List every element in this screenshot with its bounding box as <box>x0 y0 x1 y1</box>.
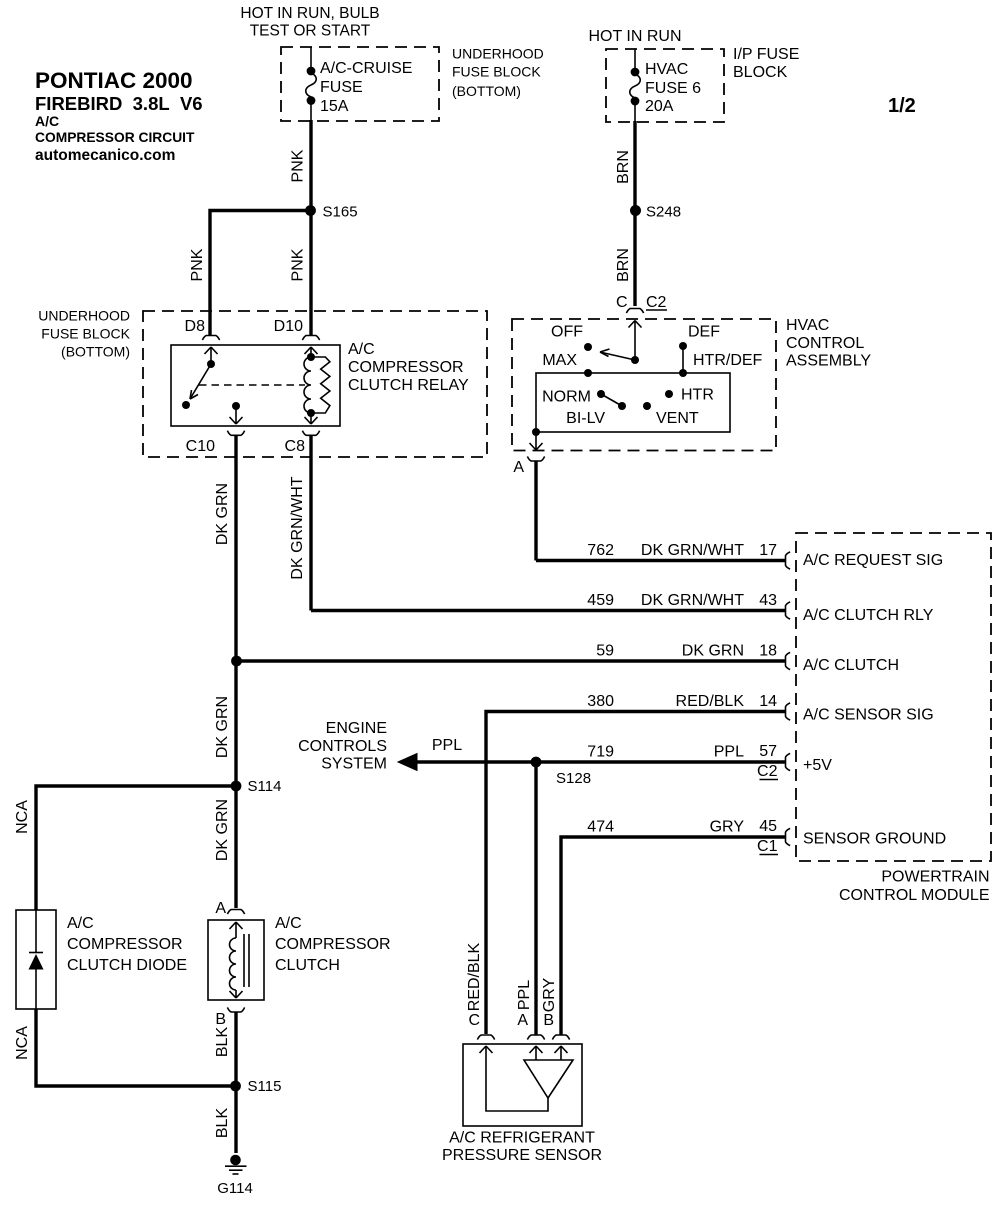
svg-text:ASSEMBLY: ASSEMBLY <box>786 353 871 370</box>
svg-text:CLUTCH DIODE: CLUTCH DIODE <box>67 957 187 974</box>
svg-text:459: 459 <box>587 592 614 609</box>
svg-text:A/C SENSOR SIG: A/C SENSOR SIG <box>803 707 934 724</box>
svg-text:FUSE 6: FUSE 6 <box>645 80 701 97</box>
svg-text:COMPRESSOR: COMPRESSOR <box>67 936 183 953</box>
svg-text:RED/BLK: RED/BLK <box>676 693 745 710</box>
svg-text:59: 59 <box>596 643 614 660</box>
svg-text:CLUTCH: CLUTCH <box>275 957 340 974</box>
svg-text:NCA: NCA <box>14 1026 31 1060</box>
svg-text:A/C: A/C <box>35 113 59 129</box>
svg-text:MAX: MAX <box>542 352 577 369</box>
svg-text:HOT IN RUN: HOT IN RUN <box>588 28 681 45</box>
svg-text:1/2: 1/2 <box>888 95 916 117</box>
svg-text:G114: G114 <box>217 1180 253 1197</box>
svg-text:DK GRN: DK GRN <box>682 643 744 660</box>
svg-text:GRY: GRY <box>541 977 558 1012</box>
svg-text:COMPRESSOR CIRCUIT: COMPRESSOR CIRCUIT <box>35 130 195 145</box>
svg-text:BLOCK: BLOCK <box>733 64 788 81</box>
svg-text:CONTROL MODULE: CONTROL MODULE <box>839 887 990 904</box>
svg-text:PPL: PPL <box>714 744 744 761</box>
svg-text:A/C: A/C <box>67 915 94 932</box>
svg-text:43: 43 <box>759 592 777 609</box>
svg-text:S248: S248 <box>646 204 681 221</box>
svg-text:RED/BLK: RED/BLK <box>466 942 483 1011</box>
svg-text:(BOTTOM): (BOTTOM) <box>61 344 130 360</box>
svg-text:BLK: BLK <box>214 1108 231 1139</box>
svg-text:PNK: PNK <box>290 149 307 182</box>
svg-text:B: B <box>543 1012 554 1029</box>
svg-text:A/C-CRUISE: A/C-CRUISE <box>320 60 412 77</box>
svg-text:A/C REQUEST SIG: A/C REQUEST SIG <box>803 552 943 569</box>
svg-text:PRESSURE SENSOR: PRESSURE SENSOR <box>442 1147 602 1164</box>
svg-text:B: B <box>215 1011 226 1028</box>
svg-text:DEF: DEF <box>688 324 720 341</box>
svg-text:380: 380 <box>587 693 614 710</box>
svg-text:S128: S128 <box>556 770 591 787</box>
svg-text:S115: S115 <box>248 1078 282 1095</box>
svg-text:A: A <box>215 900 226 917</box>
svg-text:SENSOR GROUND: SENSOR GROUND <box>803 831 946 848</box>
svg-text:HVAC: HVAC <box>786 317 829 334</box>
svg-text:GRY: GRY <box>710 819 745 836</box>
svg-text:474: 474 <box>587 819 614 836</box>
svg-text:NORM: NORM <box>542 389 591 406</box>
svg-text:DK GRN/WHT: DK GRN/WHT <box>641 592 744 609</box>
svg-text:A/C CLUTCH RLY: A/C CLUTCH RLY <box>803 607 934 624</box>
svg-text:VENT: VENT <box>656 410 699 427</box>
svg-text:C2: C2 <box>646 294 667 311</box>
svg-text:C2: C2 <box>757 763 778 780</box>
svg-text:719: 719 <box>587 744 614 761</box>
svg-text:D8: D8 <box>185 318 206 335</box>
svg-text:S114: S114 <box>248 778 282 795</box>
svg-text:NCA: NCA <box>14 800 31 834</box>
svg-text:14: 14 <box>759 693 777 710</box>
svg-text:PPL: PPL <box>516 980 533 1010</box>
svg-text:CLUTCH RELAY: CLUTCH RELAY <box>348 377 469 394</box>
svg-text:FUSE BLOCK: FUSE BLOCK <box>452 64 541 80</box>
svg-text:PNK: PNK <box>189 248 206 281</box>
svg-text:C: C <box>616 294 628 311</box>
svg-text:COMPRESSOR: COMPRESSOR <box>275 936 391 953</box>
svg-text:C10: C10 <box>186 438 215 455</box>
svg-text:DK GRN: DK GRN <box>214 696 231 758</box>
svg-text:HTR: HTR <box>681 387 714 404</box>
svg-text:18: 18 <box>759 643 777 660</box>
svg-text:I/P FUSE: I/P FUSE <box>733 46 799 63</box>
svg-text:UNDERHOOD: UNDERHOOD <box>38 308 130 324</box>
svg-text:DK GRN: DK GRN <box>214 799 231 861</box>
svg-text:CONTROL: CONTROL <box>786 335 864 352</box>
svg-text:PONTIAC 2000: PONTIAC 2000 <box>35 68 193 93</box>
svg-text:HTR/DEF: HTR/DEF <box>693 352 763 369</box>
svg-text:C1: C1 <box>757 838 778 855</box>
svg-text:15A: 15A <box>320 98 349 115</box>
svg-text:20A: 20A <box>645 98 674 115</box>
svg-text:A/C CLUTCH: A/C CLUTCH <box>803 657 899 674</box>
svg-text:C8: C8 <box>285 438 306 455</box>
svg-text:automecanico.com: automecanico.com <box>35 147 175 164</box>
svg-text:A/C: A/C <box>348 341 375 358</box>
svg-text:A/C REFRIGERANT: A/C REFRIGERANT <box>449 1130 595 1147</box>
svg-text:S165: S165 <box>323 204 358 221</box>
svg-text:COMPRESSOR: COMPRESSOR <box>348 359 464 376</box>
svg-text:DK GRN/WHT: DK GRN/WHT <box>289 476 306 579</box>
svg-text:ENGINE: ENGINE <box>326 720 387 737</box>
svg-text:DK GRN: DK GRN <box>214 483 231 545</box>
svg-text:CONTROLS: CONTROLS <box>298 738 387 755</box>
svg-text:PNK: PNK <box>290 248 307 281</box>
svg-text:FUSE BLOCK: FUSE BLOCK <box>41 326 130 342</box>
svg-text:BRN: BRN <box>615 150 632 184</box>
svg-text:57: 57 <box>759 743 777 760</box>
svg-text:UNDERHOOD: UNDERHOOD <box>452 46 544 62</box>
svg-text:A/C: A/C <box>275 915 302 932</box>
svg-text:OFF: OFF <box>551 324 583 341</box>
svg-text:SYSTEM: SYSTEM <box>321 756 387 773</box>
svg-text:45: 45 <box>759 818 777 835</box>
svg-text:POWERTRAIN: POWERTRAIN <box>881 869 989 886</box>
svg-text:D10: D10 <box>274 318 303 335</box>
svg-text:C: C <box>468 1012 480 1029</box>
svg-text:DK GRN/WHT: DK GRN/WHT <box>641 542 744 559</box>
svg-text:PPL: PPL <box>432 737 462 754</box>
svg-text:A: A <box>517 1012 528 1029</box>
svg-text:TEST OR START: TEST OR START <box>250 23 371 40</box>
svg-text:BLK: BLK <box>214 1027 231 1058</box>
svg-text:BRN: BRN <box>615 248 632 282</box>
svg-text:FIREBIRD 3.8L V6: FIREBIRD 3.8L V6 <box>35 93 203 114</box>
svg-text:A: A <box>513 459 524 476</box>
svg-text:BI-LV: BI-LV <box>566 410 605 427</box>
svg-text:17: 17 <box>759 542 777 559</box>
svg-text:HVAC: HVAC <box>645 61 688 78</box>
svg-text:762: 762 <box>587 542 614 559</box>
svg-text:(BOTTOM): (BOTTOM) <box>452 83 521 99</box>
svg-text:FUSE: FUSE <box>320 79 363 96</box>
svg-text:+5V: +5V <box>803 757 832 774</box>
svg-text:HOT IN RUN, BULB: HOT IN RUN, BULB <box>240 5 379 22</box>
